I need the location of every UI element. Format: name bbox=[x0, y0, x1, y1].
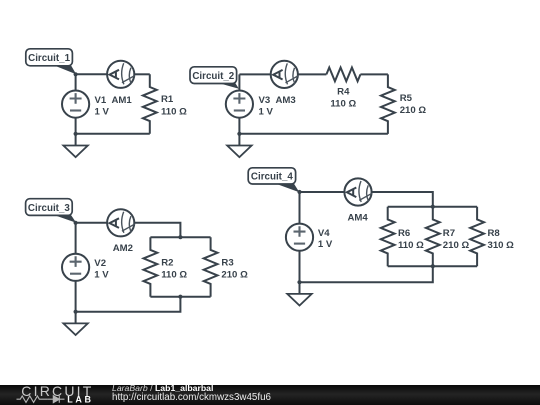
svg-text:http://circuitlab.com/ckmwzs3w: http://circuitlab.com/ckmwzs3w45fu6 bbox=[112, 392, 272, 403]
svg-text:110 Ω: 110 Ω bbox=[330, 99, 356, 110]
node junction C1 top bbox=[74, 72, 78, 76]
wire parallel to bottom rail C3 bbox=[76, 297, 181, 312]
svg-text:110 Ω: 110 Ω bbox=[161, 270, 187, 281]
wire bottom rail C2 bbox=[239, 133, 388, 135]
wire parallel bottom bar C3 bbox=[150, 296, 210, 298]
svg-text:R2: R2 bbox=[161, 258, 173, 269]
svg-text:R4: R4 bbox=[337, 87, 350, 98]
node junction C1 bottom bbox=[74, 132, 78, 136]
svg-text:210 Ω: 210 Ω bbox=[400, 105, 427, 116]
resistor R5 bbox=[381, 74, 395, 133]
node junction C4 parallel bottom bbox=[431, 264, 435, 268]
svg-text:R8: R8 bbox=[488, 228, 501, 239]
wire AM1 to R1 bbox=[134, 73, 150, 75]
resistor R1 bbox=[143, 74, 157, 134]
wire AM3 to R4 bbox=[298, 73, 327, 75]
svg-text:R6: R6 bbox=[398, 228, 410, 239]
svg-text:110 Ω: 110 Ω bbox=[161, 106, 187, 117]
footer attribution text bbox=[112, 383, 272, 403]
svg-text:AM2: AM2 bbox=[113, 243, 133, 254]
node junction C4 parallel top bbox=[431, 205, 435, 209]
svg-text:Circuit_3: Circuit_3 bbox=[28, 203, 70, 214]
svg-text:210 Ω: 210 Ω bbox=[221, 270, 248, 281]
resistor R3 bbox=[204, 237, 218, 297]
svg-text:V1: V1 bbox=[95, 95, 107, 106]
ground C2 bbox=[227, 134, 251, 157]
svg-text:1 V: 1 V bbox=[259, 107, 274, 118]
node junction C3 parallel bottom bbox=[178, 295, 182, 299]
voltage source V3 bbox=[226, 74, 253, 133]
ground C1 bbox=[63, 134, 87, 157]
wire bottom rail C1 bbox=[76, 133, 150, 135]
svg-text:Circuit_1: Circuit_1 bbox=[28, 53, 70, 64]
svg-text:LAB: LAB bbox=[67, 395, 93, 405]
svg-text:R5: R5 bbox=[400, 93, 413, 104]
node label Circuit_3 bbox=[26, 199, 77, 223]
wire top rail C3 bbox=[76, 222, 108, 224]
resistor R2 bbox=[144, 237, 158, 297]
wire AM2 to parallel block bbox=[134, 223, 180, 237]
wire parallel top bar C4 bbox=[388, 206, 477, 208]
node label Circuit_4 bbox=[248, 168, 299, 192]
svg-text:V3: V3 bbox=[259, 95, 271, 106]
svg-text:AM3: AM3 bbox=[276, 95, 296, 106]
svg-text:AM4: AM4 bbox=[348, 213, 369, 224]
svg-text:310 Ω: 310 Ω bbox=[488, 240, 515, 251]
CircuitLab logo wordmark bbox=[21, 383, 93, 404]
node junction C2 bottom bbox=[237, 132, 241, 136]
ammeter AM4 bbox=[344, 178, 372, 205]
node junction C4 bottom bbox=[297, 280, 301, 284]
wire parallel top bar C3 bbox=[150, 236, 210, 238]
voltage source V2 bbox=[62, 223, 89, 312]
svg-text:Circuit_2: Circuit_2 bbox=[192, 71, 234, 82]
svg-text:Circuit_4: Circuit_4 bbox=[251, 172, 293, 183]
node junction C3 bottom bbox=[74, 310, 78, 314]
node junction C3 parallel top bbox=[178, 235, 182, 239]
CircuitLab logo schematic squiggle bbox=[17, 396, 65, 403]
voltage source V1 bbox=[62, 74, 89, 134]
svg-text:1 V: 1 V bbox=[94, 270, 109, 281]
wire R4 to R5 bbox=[360, 73, 388, 75]
svg-text:1 V: 1 V bbox=[318, 239, 333, 250]
svg-text:R1: R1 bbox=[161, 94, 174, 105]
resistor R7 bbox=[426, 207, 440, 267]
wire top rail C1 bbox=[76, 73, 108, 75]
svg-text:110 Ω: 110 Ω bbox=[398, 240, 424, 251]
wire parallel to bottom rail C4 bbox=[300, 266, 433, 282]
resistor R6 bbox=[381, 207, 395, 267]
resistor R8 bbox=[470, 207, 484, 267]
svg-text:R7: R7 bbox=[443, 228, 455, 239]
resistor R4 bbox=[326, 68, 360, 82]
ammeter AM2 bbox=[107, 209, 135, 236]
svg-text:V4: V4 bbox=[318, 228, 330, 239]
wire parallel bottom bar C4 bbox=[388, 265, 477, 267]
svg-text:1 V: 1 V bbox=[95, 107, 110, 118]
svg-text:V2: V2 bbox=[94, 258, 106, 269]
wire AM4 to parallel block bbox=[372, 192, 433, 207]
ground C4 bbox=[287, 282, 311, 305]
svg-text:AM1: AM1 bbox=[112, 95, 133, 106]
ground C3 bbox=[63, 312, 87, 335]
node label Circuit_1 bbox=[26, 49, 76, 74]
wire top rail C2 bbox=[239, 73, 270, 75]
node junction C3 top bbox=[74, 221, 78, 225]
svg-text:R3: R3 bbox=[221, 258, 233, 269]
ammeter AM3 bbox=[271, 61, 299, 88]
wire top rail C4 bbox=[300, 191, 345, 193]
node junction C4 top bbox=[297, 190, 301, 194]
ammeter AM1 bbox=[107, 61, 135, 88]
node label Circuit_2 bbox=[190, 67, 239, 89]
voltage source V4 bbox=[286, 192, 313, 282]
svg-text:210 Ω: 210 Ω bbox=[443, 240, 470, 251]
